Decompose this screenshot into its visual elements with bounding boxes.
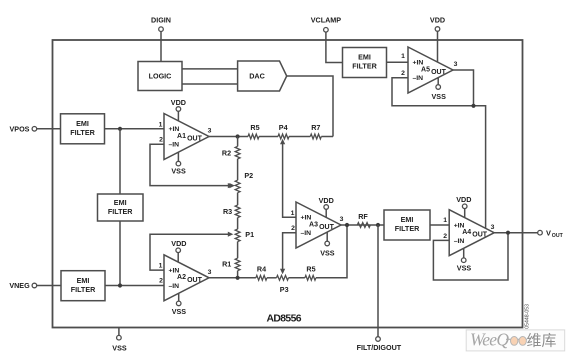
pin 3 of A3 <box>340 216 344 223</box>
resistor R5 (top) <box>248 123 260 139</box>
terminal VSS (A3) <box>320 241 335 257</box>
part number AD8556 <box>267 314 302 325</box>
svg-text:2: 2 <box>443 233 447 240</box>
svg-text:OUT: OUT <box>187 277 203 284</box>
op-amp A3 <box>296 202 341 248</box>
svg-text:VSS: VSS <box>457 264 472 273</box>
wire VPOS to EMI filter <box>37 128 61 130</box>
svg-text:VSS: VSS <box>171 166 186 175</box>
wire A4 VSS stub <box>463 248 465 258</box>
terminal VDD (A2) <box>171 239 186 253</box>
terminal VSS (bottom) <box>112 328 127 353</box>
svg-text:OUT: OUT <box>472 232 488 239</box>
svg-text:–IN: –IN <box>169 142 180 149</box>
pin 3 of A2 <box>208 269 212 276</box>
svg-text:R5: R5 <box>250 123 259 132</box>
node A3 output junction <box>345 223 349 227</box>
pin 1 of A4 <box>443 217 447 224</box>
terminal VSS (A5) <box>432 85 447 101</box>
node A5 output junction <box>471 104 475 108</box>
wire R3 to P1 <box>237 218 239 230</box>
svg-text:VDD: VDD <box>171 239 186 248</box>
node RF output junction <box>376 223 380 227</box>
wire EMI filter to A5 +IN <box>387 61 409 63</box>
EMI filter (VNEG) <box>61 271 105 301</box>
svg-text:–IN: –IN <box>413 75 424 82</box>
op-amp A1 <box>164 114 209 160</box>
potentiometer P4 <box>278 123 289 139</box>
pin 2 of A1 <box>159 137 163 144</box>
wire RF node to FILT/DIGOUT <box>377 225 379 337</box>
wire A2 VDD stub <box>177 253 179 263</box>
wire VDD to A5 <box>437 31 439 62</box>
wire DAC output to R7 column <box>287 76 333 137</box>
wire junction down to middle EMI filter <box>119 129 121 194</box>
wire A3 VDD stub <box>325 209 327 217</box>
svg-text:EMI: EMI <box>114 198 127 207</box>
figure code 05448-053 <box>525 304 531 329</box>
svg-text:1: 1 <box>291 210 295 217</box>
svg-text:OUT: OUT <box>552 233 564 239</box>
potentiometer P2 <box>228 171 253 193</box>
svg-text:P4: P4 <box>279 123 288 132</box>
pin 3 of A5 <box>454 61 458 68</box>
svg-text:1: 1 <box>159 121 163 128</box>
svg-text:2: 2 <box>159 137 163 144</box>
svg-text:EMI: EMI <box>358 53 371 62</box>
svg-text:2: 2 <box>401 70 405 77</box>
wire EMI filter to A2 -IN <box>105 285 164 287</box>
svg-text:3: 3 <box>491 224 495 231</box>
EMI filter (VCLAMP) <box>343 48 387 78</box>
svg-text:OUT: OUT <box>187 136 203 143</box>
wire A1 feedback to P2 wiper <box>150 144 235 188</box>
wire A3 VSS stub <box>326 232 328 241</box>
wire A1 VDD stub <box>177 111 179 121</box>
EMI filter (RF) <box>384 210 430 240</box>
node A1 output junction <box>236 134 240 138</box>
EMI filter (VPOS) <box>61 114 105 144</box>
svg-text:–IN: –IN <box>454 238 465 245</box>
wire A2 feedback to P1 wiper <box>150 234 229 270</box>
svg-text:AD8556: AD8556 <box>267 314 302 325</box>
svg-text:FILTER: FILTER <box>395 224 420 233</box>
wire R7 to DAC column <box>321 136 333 138</box>
svg-text:3: 3 <box>208 128 212 135</box>
wire A3 -IN to P3 wiper <box>280 233 296 275</box>
terminal VDD (A5) <box>430 15 445 31</box>
terminal DIGIN <box>151 15 171 31</box>
svg-text:–IN: –IN <box>301 230 312 237</box>
svg-text:OUT: OUT <box>431 69 447 76</box>
svg-text:VPOS: VPOS <box>10 125 30 134</box>
potentiometer P1 <box>228 229 254 242</box>
svg-text:WeeQ: WeeQ <box>470 330 509 350</box>
svg-text:VSS: VSS <box>432 92 447 101</box>
wire P3 to R5 <box>289 277 305 279</box>
svg-text:VSS: VSS <box>320 249 335 258</box>
svg-text:FILTER: FILTER <box>70 128 95 137</box>
svg-text:VDD: VDD <box>456 195 471 204</box>
svg-text:VSS: VSS <box>172 307 187 316</box>
svg-text:3: 3 <box>208 269 212 276</box>
op-amp A2 <box>164 255 209 301</box>
node A2 output junction <box>236 276 240 280</box>
pin 3 of A4 <box>491 224 495 231</box>
wire A4 feedback loop <box>433 233 508 280</box>
wire R5 to A3 output node <box>316 225 347 278</box>
svg-text:A1: A1 <box>177 133 186 140</box>
svg-text:P1: P1 <box>245 230 254 239</box>
node A4 output junction <box>506 231 510 235</box>
terminal VDD (A3) <box>319 196 334 209</box>
pin 1 of A2 <box>159 262 163 269</box>
svg-text:2: 2 <box>291 225 295 232</box>
node VPOS filter junction <box>118 127 122 131</box>
wire A4 VDD stub <box>464 209 466 218</box>
resistor RF <box>357 212 370 227</box>
svg-text:R3: R3 <box>223 207 232 216</box>
terminal VOUT <box>538 228 564 239</box>
op-amp A5 <box>408 47 453 93</box>
svg-text:VSS: VSS <box>112 343 127 352</box>
pin 1 of A3 <box>291 210 295 217</box>
potentiometer P3 <box>277 275 289 294</box>
svg-text:1: 1 <box>159 262 163 269</box>
svg-text:P3: P3 <box>280 285 289 294</box>
terminal VCLAMP <box>311 15 342 32</box>
wire A4 output to VOUT <box>494 232 538 234</box>
wire P1 to R1 <box>237 242 239 259</box>
pin 1 of A5 <box>401 53 405 60</box>
dac block DAC <box>238 61 287 91</box>
svg-text:VDD: VDD <box>171 98 186 107</box>
terminal VDD (A4) <box>456 195 471 209</box>
wire A5 output <box>453 70 474 106</box>
svg-text:R7: R7 <box>311 123 320 132</box>
wire middle EMI filter to VNEG row <box>119 221 121 286</box>
node VNEG filter junction <box>118 283 122 287</box>
svg-text:A3: A3 <box>309 221 318 228</box>
svg-text:1: 1 <box>401 53 405 60</box>
svg-text:–IN: –IN <box>169 283 180 290</box>
svg-text:R4: R4 <box>257 264 266 273</box>
resistor R1 <box>222 258 240 271</box>
pin 1 of A1 <box>159 121 163 128</box>
svg-text:EMI: EMI <box>401 215 414 224</box>
terminal VSS (A1) <box>171 161 186 175</box>
wire EMI filter to A4 +IN <box>430 224 449 226</box>
svg-text:VNEG: VNEG <box>9 281 30 290</box>
pin 2 of A4 <box>443 233 447 240</box>
wire A2 output row <box>209 277 256 279</box>
wire A5 VSS stub <box>437 78 439 85</box>
svg-text:EMI: EMI <box>77 276 90 285</box>
svg-text:FILTER: FILTER <box>108 207 133 216</box>
wire P2 to R3 <box>237 193 239 205</box>
svg-text:V: V <box>546 228 551 237</box>
svg-text:EMI: EMI <box>76 119 89 128</box>
terminal VSS (A4) <box>457 258 472 273</box>
op-amp A4 <box>449 210 494 256</box>
resistor R7 <box>310 123 321 139</box>
outer border frame of AD8556 block <box>53 40 523 328</box>
svg-text:FILT/DIGOUT: FILT/DIGOUT <box>357 343 402 352</box>
svg-text:R1: R1 <box>222 260 231 269</box>
terminal VPOS <box>10 125 37 134</box>
wire DIGIN to LOGIC <box>160 32 162 62</box>
svg-text:DAC: DAC <box>249 72 265 81</box>
wire EMI filter to A1 +IN <box>105 128 165 130</box>
wire A3 output row <box>341 224 384 226</box>
svg-text:OUT: OUT <box>319 224 335 231</box>
pin 2 of A2 <box>159 278 163 285</box>
svg-text:1: 1 <box>443 217 447 224</box>
svg-text:05448-053: 05448-053 <box>525 304 531 329</box>
logic block LOGIC <box>138 62 182 91</box>
svg-text:FILTER: FILTER <box>352 62 377 71</box>
pin 3 of A1 <box>208 128 212 135</box>
terminal VSS (A2) <box>172 301 187 316</box>
svg-text:A5: A5 <box>421 66 430 73</box>
wire A2 VSS stub <box>178 293 180 301</box>
svg-text:VDD: VDD <box>319 196 334 205</box>
resistor R2 <box>222 146 240 159</box>
svg-text:维库: 维库 <box>527 333 557 350</box>
svg-text:DIGIN: DIGIN <box>151 15 171 24</box>
terminal VNEG <box>9 281 36 290</box>
resistor R4 <box>256 264 267 280</box>
wire VCLAMP to EMI filter <box>326 32 343 62</box>
svg-text:3: 3 <box>454 61 458 68</box>
wire R1 to A2 output row <box>237 271 239 278</box>
bus wire LOGIC to DAC upper <box>182 68 238 70</box>
svg-text:R2: R2 <box>222 149 231 158</box>
svg-text:FILTER: FILTER <box>71 285 96 294</box>
svg-text:VDD: VDD <box>430 15 445 24</box>
terminal VDD (A1) <box>171 98 186 111</box>
svg-text:R5: R5 <box>306 264 315 273</box>
bus wire LOGIC to DAC lower <box>182 83 238 85</box>
svg-text:A4: A4 <box>462 229 471 236</box>
wire A1 junction to R2 <box>237 137 239 147</box>
wire R4 to P3 <box>267 277 277 279</box>
EMI filter (middle) <box>98 194 144 221</box>
pin 2 of A5 <box>401 70 405 77</box>
svg-text:P2: P2 <box>244 171 253 180</box>
svg-text:3: 3 <box>340 216 344 223</box>
pin 2 of A3 <box>291 225 295 232</box>
svg-text:VCLAMP: VCLAMP <box>311 15 342 24</box>
resistor R3 <box>223 205 240 218</box>
svg-text:RF: RF <box>358 212 368 221</box>
wire P4 wiper to A3 +IN <box>280 139 296 218</box>
wire A5 feedback to A4 <box>392 78 486 229</box>
wire R5 to P4 <box>259 136 278 138</box>
svg-text:A2: A2 <box>177 274 186 281</box>
watermark WeeQoo <box>466 330 565 351</box>
wire A1 VSS stub <box>177 152 179 161</box>
wire R2 to P2 <box>237 159 239 180</box>
resistor R5 (bottom) <box>305 264 316 280</box>
terminal FILT/DIGOUT <box>357 337 402 353</box>
wire P4 to R7 <box>289 136 310 138</box>
svg-text:LOGIC: LOGIC <box>149 72 172 81</box>
wire VNEG to EMI filter <box>37 285 61 287</box>
svg-text:2: 2 <box>159 278 163 285</box>
wire A1 output row <box>209 136 248 138</box>
